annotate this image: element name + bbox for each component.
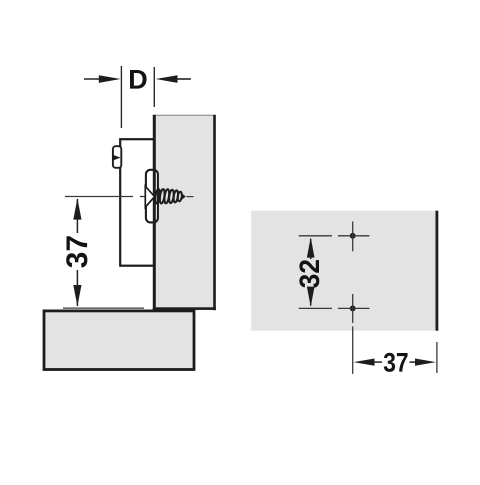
dimension 37 (right) left arrowhead bbox=[354, 359, 375, 366]
upper hole vertical centerline bbox=[352, 222, 354, 252]
cabinet side panel bottom border bbox=[153, 307, 216, 310]
screw thread coil turn 5 bbox=[173, 190, 179, 202]
cabinet side panel left border bbox=[153, 115, 156, 310]
screw thread coil turn 3 bbox=[164, 189, 170, 204]
dimension D label bbox=[130, 70, 147, 89]
dimension D right arrowhead bbox=[156, 75, 178, 83]
dimension 32 line upper segment bbox=[310, 239, 312, 259]
dimension 37 down arrowhead bbox=[73, 285, 81, 306]
dimension 32 line lower segment bbox=[310, 288, 312, 306]
dimension 37 (right) left line segment bbox=[373, 361, 382, 363]
cabinet side panel top edge bbox=[153, 114, 216, 116]
dimension D right extension line bbox=[153, 67, 155, 107]
cabinet side panel right border bbox=[213, 115, 216, 310]
dimension D left arrow tail bbox=[84, 78, 101, 80]
screw tip center dash bbox=[187, 196, 194, 198]
dimension D left extension line bbox=[120, 66, 122, 128]
dimension 32 upper extension line bbox=[299, 235, 332, 237]
screw tip cone bbox=[182, 193, 186, 200]
lower hole vertical centerline bbox=[352, 294, 354, 323]
dimension D right arrow tail bbox=[176, 78, 191, 80]
screw thread coil turn 4 bbox=[168, 189, 174, 203]
lower hole centerline extension dash bbox=[352, 326, 354, 374]
cabinet side panel (section view) fill bbox=[153, 115, 216, 310]
dimension 37 (right) right line segment bbox=[410, 361, 417, 363]
dimension 32 down arrowhead bbox=[307, 287, 315, 307]
dimension 37 (right) label bbox=[384, 353, 408, 372]
lower drill hole bbox=[350, 306, 356, 312]
screw thread coil turn 2 bbox=[159, 189, 165, 204]
lower hole horizontal centerline bbox=[338, 307, 370, 309]
screw thread coil turn 1 bbox=[154, 189, 160, 204]
bottom extension line of 37 dimension bbox=[63, 307, 144, 309]
screw head (countersunk) bbox=[145, 186, 154, 207]
mounting plate clip wedge bbox=[113, 155, 121, 161]
panel right edge extension line bbox=[436, 342, 438, 373]
wall mounting panel right border bbox=[436, 211, 439, 331]
upper drill hole bbox=[350, 233, 356, 239]
door front slab (section view) bbox=[44, 311, 194, 370]
screw thread coil turn 6 bbox=[177, 191, 182, 201]
dimension 32 lower extension line bbox=[299, 307, 332, 309]
dimension 37 vertical line lower segment bbox=[76, 270, 78, 306]
mounting plate screw boss flange bbox=[146, 170, 158, 223]
dimension D left arrowhead bbox=[99, 75, 121, 83]
dimension 37 (right) right arrowhead bbox=[415, 359, 436, 366]
screw axis centerline long segment bbox=[65, 196, 133, 198]
mounting plate clip lug bbox=[113, 146, 121, 168]
dimension 32 label (rotated) bbox=[299, 260, 319, 288]
dimension 32 up arrowhead bbox=[307, 237, 315, 257]
upper hole horizontal centerline bbox=[338, 235, 370, 237]
mounting plate body (cross-section) bbox=[120, 139, 154, 266]
dimension 37 up arrowhead bbox=[73, 198, 81, 219]
dimension 37 label (rotated) bbox=[66, 236, 87, 267]
screw axis centerline short dash bbox=[140, 196, 145, 198]
dimension 37 vertical line upper segment bbox=[76, 199, 78, 233]
wall mounting panel (face view) fill bbox=[251, 211, 438, 331]
